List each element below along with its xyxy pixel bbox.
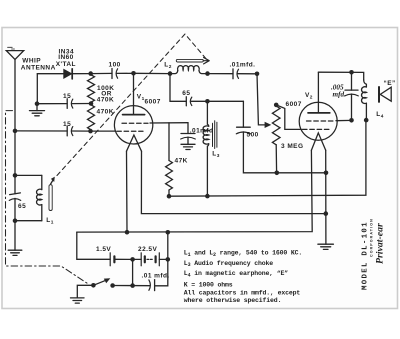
inductor L1 branch top wire <box>15 174 42 176</box>
V1 filament <box>127 135 142 151</box>
ground G3 <box>187 137 189 144</box>
wire antenna lead down <box>14 59 16 193</box>
node tank top <box>13 173 18 178</box>
V1 plate lead <box>133 73 135 114</box>
node switch right contact <box>110 283 115 288</box>
L3 core bars <box>212 123 214 146</box>
svg-text:CORPORATION: CORPORATION <box>370 218 374 257</box>
svg-text:Privat-ear: Privat-ear <box>375 223 386 264</box>
ground G2 under diode node <box>36 104 38 111</box>
svg-text:6007: 6007 <box>286 101 302 108</box>
node rail A right <box>324 171 329 176</box>
svg-text:47K: 47K <box>175 158 188 165</box>
inductor L1 coil <box>41 175 43 189</box>
diode D1 1N34 <box>64 70 72 79</box>
capacitor C 500 stem <box>242 101 244 127</box>
node switch pivot <box>91 283 96 288</box>
svg-text:where otherwise specified.: where otherwise specified. <box>184 297 282 304</box>
svg-text:“E”: “E” <box>384 80 396 87</box>
node L2 left <box>168 71 173 76</box>
svg-text:470K: 470K <box>97 97 114 104</box>
inductor L2 <box>170 70 178 73</box>
wire link vertical <box>167 232 169 259</box>
wire antenna line lower <box>14 198 16 250</box>
node L2 right <box>205 71 210 76</box>
V2 plate lead <box>317 72 319 113</box>
earphone horn triangle <box>380 87 391 101</box>
svg-text:.01mfd: .01mfd <box>190 128 214 135</box>
node pot bottom rail A <box>275 171 280 176</box>
wire switch row <box>113 285 150 287</box>
node V1 plate <box>131 71 136 76</box>
V1 grid1 dashed <box>122 122 148 124</box>
node L3 top <box>205 99 210 104</box>
svg-text:MODEL DL-101: MODEL DL-101 <box>362 221 370 290</box>
capacitor C .005 stem+plates <box>351 72 353 90</box>
capacitor C .01mfd plates <box>232 69 234 79</box>
node cap/batt tap <box>130 283 135 288</box>
V2 grid2 dashed <box>303 128 331 130</box>
ground G5 <box>71 297 85 299</box>
battery B1 1.5V <box>109 253 111 266</box>
capacitor C .01mfd grid plates <box>181 133 195 135</box>
wire V1 plate to L2 <box>134 72 171 74</box>
node R1/R2 junction <box>89 101 94 106</box>
wire 65 to L3 top <box>191 100 243 102</box>
capacitor C .01mfd bottom plates <box>149 280 151 290</box>
svg-text:65: 65 <box>18 203 26 210</box>
L2 slug arrow <box>176 59 203 62</box>
svg-text:15: 15 <box>63 121 71 128</box>
potentiometer R4 3MEG <box>274 103 279 108</box>
svg-text:100: 100 <box>109 62 121 69</box>
wire V2 plate top <box>318 72 363 80</box>
svg-text:ANTENNA: ANTENNA <box>21 65 56 72</box>
capacitor C 100 wire <box>91 72 112 74</box>
node tank bottom <box>13 218 18 223</box>
svg-text:.01 mfd.: .01 mfd. <box>142 273 170 280</box>
svg-text:22.5V: 22.5V <box>138 246 157 253</box>
switch S1 arm <box>93 280 105 285</box>
resistor R2 470K <box>88 105 95 130</box>
earphone diaphragm bar <box>378 87 380 102</box>
capacitor C 100 plates <box>111 69 113 79</box>
op V1 tube envelope <box>114 106 152 144</box>
ground G1 bottom left <box>8 249 22 251</box>
wire diode to R1 node <box>73 73 91 75</box>
node .005 top <box>349 70 354 75</box>
node L4 bottom <box>364 118 369 123</box>
node diode/ground junction <box>35 101 40 106</box>
wire link down to cap corner <box>155 259 168 285</box>
svg-text:X'TAL: X'TAL <box>56 61 76 68</box>
resistor R3 47K lead <box>168 123 170 161</box>
node battery right <box>166 257 171 262</box>
wire cap 100 to V1 plate node <box>117 72 134 74</box>
wire mid node down to switch row <box>132 259 134 285</box>
wire down to pot wiper <box>257 74 266 125</box>
wire rail B <box>169 120 366 196</box>
svg-text:All capacitors in mmfd., excep: All capacitors in mmfd., except <box>184 290 301 297</box>
capacitor C .01mfd grid bypass stem <box>187 123 189 134</box>
wire V1 filament left leg <box>126 151 129 232</box>
capacitor C 15 lower wire <box>15 130 67 132</box>
ground G4 <box>318 243 334 245</box>
wire batt right to link <box>159 258 168 260</box>
wire 65 row <box>170 100 186 102</box>
svg-text:3 MEG: 3 MEG <box>281 143 303 150</box>
L1 tuning slug bar <box>49 185 52 211</box>
capacitor C 15 upper plates <box>66 99 68 109</box>
antenna ANT whip <box>6 51 23 60</box>
wire corner down to ground node <box>36 74 38 104</box>
wire cap to R junction <box>72 103 91 105</box>
capacitor C .01mfd coupling wire <box>208 73 234 75</box>
diode D1 wire from corner <box>37 73 64 75</box>
L1 tuning arrow <box>51 179 54 184</box>
node L3 bottom <box>205 194 210 199</box>
svg-text:65: 65 <box>182 90 190 97</box>
node antenna/15pf tap <box>13 129 18 134</box>
dashed tuning gang line L1 to L2 <box>57 34 207 176</box>
V1 grid2 dashed <box>117 130 143 132</box>
svg-text:K = 1000 ohms: K = 1000 ohms <box>184 282 233 289</box>
svg-text:WHIP: WHIP <box>22 58 41 65</box>
svg-text:6007: 6007 <box>145 98 161 105</box>
node R2 bottom / V1 grid <box>88 129 93 134</box>
capacitor C 500 plates <box>237 126 251 128</box>
wire V2 filament left leg to rail <box>77 150 312 232</box>
dash-dot chassis/linkage line left <box>6 111 89 284</box>
wire cap to grid node <box>72 130 91 132</box>
svg-text:15: 15 <box>63 93 71 100</box>
node rail C right <box>324 211 329 216</box>
wire to corner dot <box>238 73 257 75</box>
resistor R3 47K <box>166 161 173 191</box>
node R1 top <box>88 71 93 76</box>
node batt link on rail <box>166 230 171 235</box>
op V2 tube envelope <box>299 102 337 140</box>
node .005 bottom <box>349 118 354 123</box>
V2 filament <box>311 133 325 150</box>
wire 500 to rail A <box>243 132 326 173</box>
wire pot top to V2 grid <box>276 105 301 129</box>
svg-text:1.5V: 1.5V <box>96 246 111 253</box>
wire battery rail corner <box>77 232 110 259</box>
wire V2 filament right leg <box>325 150 327 244</box>
node coupling corner <box>255 72 260 77</box>
node 47K bottom rail B <box>167 194 172 199</box>
node battery mid <box>130 257 135 262</box>
wire grid node to V1 <box>91 130 116 132</box>
node V1 fil left on rail <box>125 230 130 235</box>
svg-text:470K: 470K <box>97 108 114 115</box>
capacitor C 15 lower plates <box>66 126 68 136</box>
svg-text:mfd.: mfd. <box>333 90 347 98</box>
battery B2 22.5V <box>140 253 142 266</box>
wire L1 bottom <box>15 220 42 222</box>
V2 grid1 dashed <box>307 120 335 122</box>
svg-text:.01mfd.: .01mfd. <box>230 61 256 68</box>
wire V1 filament right leg to rail C <box>141 151 325 213</box>
inductor L3 choke <box>207 101 208 126</box>
capacitor C 65 mid branch left riser <box>169 74 171 102</box>
wire V1 grid1 out right <box>150 122 188 124</box>
inductor L4 earphone coil <box>364 80 367 87</box>
wire batt row mid <box>114 258 141 260</box>
pot wiper arrow <box>265 122 272 128</box>
V2 plate bar <box>308 112 330 114</box>
svg-text:500: 500 <box>247 132 259 139</box>
V1 plate bar <box>123 114 145 116</box>
resistor R1 100K/470K <box>88 75 95 102</box>
capacitor C 15 upper wire <box>37 103 67 105</box>
capacitor C 65 left <box>10 193 21 195</box>
capacitor C 65 mid plates <box>185 97 187 106</box>
wire V2 grid1 out right <box>336 119 352 121</box>
wire switch to ground <box>77 285 93 298</box>
